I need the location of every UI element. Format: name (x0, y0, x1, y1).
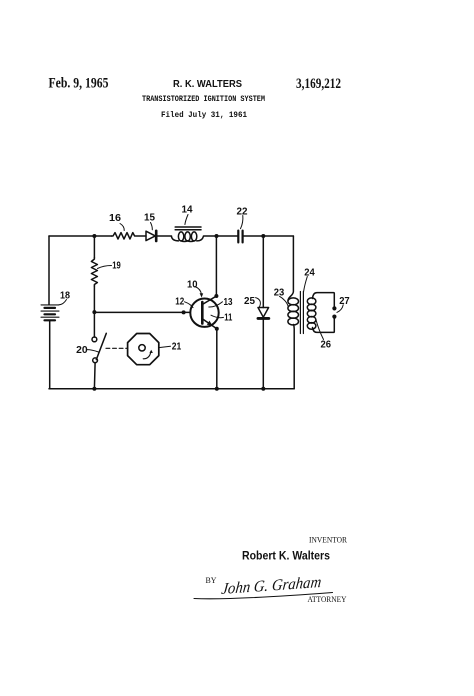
resistor 16 leader line (120, 224, 124, 231)
svg-text:21: 21 (172, 341, 182, 352)
wire gap to secondary bottom (313, 319, 335, 333)
battery 18 leader line (59, 300, 67, 305)
svg-text:25: 25 (244, 296, 255, 307)
transformer primary winding 23 (288, 298, 299, 325)
svg-text:10: 10 (187, 279, 198, 290)
svg-text:18: 18 (60, 290, 70, 301)
resistor 19 (91, 258, 97, 287)
wire collector to top rail (215, 236, 217, 296)
dashed link switch to distributor cam (106, 347, 128, 349)
distributor cam 21 rotation arrow (143, 350, 153, 359)
svg-text:11: 11 (224, 312, 232, 323)
wire resistor 19 branch upper (93, 236, 95, 258)
wire transformer primary top (288, 236, 293, 301)
svg-text:ATTORNEY: ATTORNEY (308, 594, 347, 604)
wire top rail (49, 235, 293, 237)
wire switch branch upper (93, 312, 95, 337)
node junction emitter bottom (215, 387, 219, 391)
switch 20 arm (96, 333, 106, 359)
svg-text:3,169,212: 3,169,212 (296, 76, 341, 92)
transformer secondary winding 26 (307, 298, 316, 329)
svg-text:24: 24 (304, 267, 315, 278)
svg-text:19: 19 (112, 260, 121, 271)
svg-text:15: 15 (144, 213, 155, 224)
transistor 12 leader line (185, 302, 194, 308)
diode 15 leader line (151, 223, 153, 230)
wire diode 25 branch lower (262, 318, 264, 388)
distributor cam 21 shaft circle (139, 345, 145, 351)
node junction top resistor 19 branch (92, 234, 96, 238)
svg-text:Filed July 31, 1961: Filed July 31, 1961 (161, 110, 247, 120)
transistor 10 emitter lead with arrow (202, 319, 217, 329)
wire emitter to bottom rail (216, 329, 218, 389)
node collector dot (214, 294, 218, 298)
wire transistor base lead (94, 311, 190, 313)
wire diode 25 branch upper (262, 236, 264, 308)
transistor 11 leader line (211, 315, 224, 317)
node junction switch bottom (92, 387, 96, 391)
signature underline flourish (194, 593, 333, 599)
battery 18 (41, 305, 59, 320)
transformer 23 leader line (280, 296, 289, 307)
svg-text:14: 14 (182, 205, 193, 216)
svg-text:26: 26 (321, 339, 332, 350)
wire left rail lower (49, 320, 51, 388)
capacitor 22 (238, 231, 242, 243)
svg-text:R. K. WALTERS: R. K. WALTERS (173, 79, 242, 90)
transistor 10 arrow leader (195, 287, 203, 298)
diode 15 (146, 231, 156, 241)
node junction diode bottom (261, 387, 265, 391)
wire switch branch lower (93, 363, 96, 389)
transistor 10 collector lead (202, 296, 216, 304)
switch 20 leader line (87, 350, 99, 352)
svg-text:INVENTOR: INVENTOR (309, 535, 347, 545)
node junction diode branch top (261, 234, 265, 238)
svg-text:12: 12 (175, 297, 184, 308)
resistor 16 (112, 233, 147, 239)
switch 20 contact circles (92, 337, 98, 363)
distributor 21 leader line (159, 346, 171, 347)
spark gap 27 upper electrode (332, 306, 336, 310)
svg-text:27: 27 (339, 296, 350, 307)
resistor 19 leader line (98, 266, 112, 269)
transformer core 24 (300, 292, 303, 334)
svg-text:Feb. 9, 1965: Feb. 9, 1965 (49, 76, 109, 92)
diode 25 (258, 308, 269, 319)
capacitor 22 leader line (241, 216, 243, 229)
node base lead dot (182, 310, 186, 314)
spark gap 27 leader line (337, 305, 343, 313)
svg-text:13: 13 (224, 297, 233, 308)
node emitter dot (215, 327, 219, 331)
transistor 10 base bar (201, 302, 204, 324)
wire resistor 19 branch lower (93, 286, 95, 312)
spark gap 27 lower electrode (332, 315, 336, 319)
svg-text:TRANSISTORIZED IGNITION SYSTEM: TRANSISTORIZED IGNITION SYSTEM (142, 94, 265, 104)
svg-text:20: 20 (76, 345, 88, 356)
distributor cam 21 octagon (128, 334, 159, 365)
node junction top of transistor branch (215, 234, 219, 238)
diode 25 leader line (256, 298, 261, 308)
inductor 14 coil (171, 232, 203, 242)
inductor 14 core bars (175, 227, 201, 230)
transformer 26 leader line (316, 320, 324, 340)
svg-text:16: 16 (109, 213, 121, 224)
wire left rail upper (48, 236, 50, 305)
svg-text:Robert K. Walters: Robert K. Walters (242, 549, 330, 563)
inductor 14 leader line (185, 215, 188, 225)
wire transformer primary bottom (293, 325, 296, 389)
wire bottom rail (49, 388, 294, 390)
svg-text:22: 22 (237, 207, 248, 218)
transformer 24 leader line (304, 277, 308, 292)
transistor Q 10 circle (190, 299, 218, 327)
wire secondary top to gap (313, 293, 335, 307)
node junction base branch (92, 310, 96, 314)
svg-text:BY: BY (206, 576, 217, 585)
transistor 13 leader line (209, 302, 223, 307)
